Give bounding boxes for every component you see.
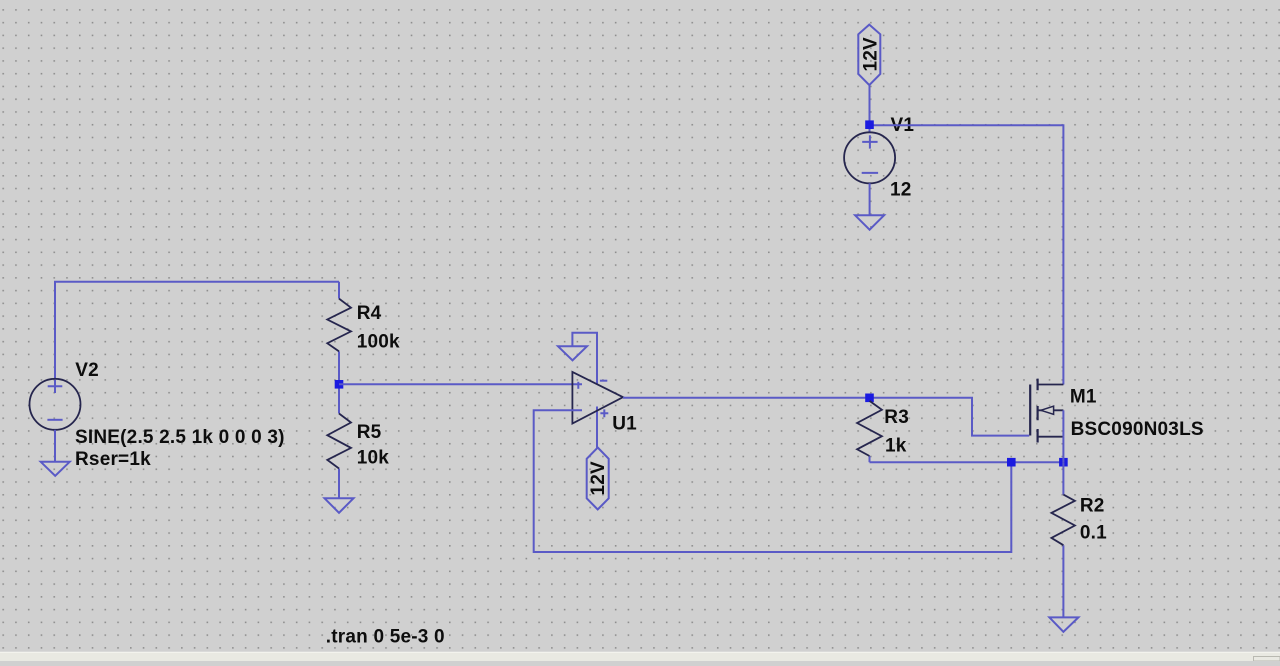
wire divider to op-amp + input bbox=[339, 383, 582, 385]
wire R3 node to M1 gate bbox=[870, 398, 1030, 436]
junction node source/R2 bbox=[1059, 458, 1068, 467]
svg-text:R2: R2 bbox=[1080, 496, 1105, 517]
svg-text:100k: 100k bbox=[357, 331, 400, 352]
svg-text:Rser=1k: Rser=1k bbox=[75, 449, 151, 470]
svg-text:BSC090N03LS: BSC090N03LS bbox=[1071, 419, 1204, 440]
wire V1 to M1 drain bbox=[870, 125, 1064, 384]
ground at V1 bbox=[855, 215, 884, 229]
svg-text:V2: V2 bbox=[75, 360, 99, 381]
svg-text:M1: M1 bbox=[1070, 387, 1097, 408]
resistor R5 10k bbox=[327, 384, 389, 498]
svg-text:U1: U1 bbox=[612, 414, 637, 435]
op-amp U1 bbox=[572, 333, 637, 448]
svg-text:12: 12 bbox=[890, 179, 912, 200]
ground at R2 bbox=[1049, 617, 1078, 631]
power flag 12V at op-amp V+ bbox=[587, 448, 610, 510]
svg-text:12V: 12V bbox=[860, 37, 881, 72]
voltage source V1 bbox=[844, 115, 914, 200]
wire V2 top to R4 bbox=[55, 282, 339, 379]
svg-text:R4: R4 bbox=[357, 303, 382, 324]
power flag 12V at V1 bbox=[858, 25, 881, 86]
wire V2 bottom to ground bbox=[54, 430, 56, 462]
svg-text:12V: 12V bbox=[588, 461, 609, 496]
svg-text:1k: 1k bbox=[885, 435, 907, 456]
junction node op-amp output / R3 bbox=[865, 394, 874, 403]
wire R3 bottom to source node bbox=[870, 461, 1064, 463]
wire feedback (op-amp inverting input loop) bbox=[534, 410, 1012, 552]
wire V1 bottom to ground bbox=[869, 183, 871, 215]
junction node R4/R5 divider bbox=[335, 380, 344, 389]
svg-text:SINE(2.5 2.5 1k 0 0 0 3): SINE(2.5 2.5 1k 0 0 0 3) bbox=[75, 427, 285, 448]
resistor R4 100k bbox=[327, 282, 400, 385]
svg-text:R3: R3 bbox=[884, 407, 909, 428]
wire M1 source to R2 bbox=[1062, 437, 1064, 463]
wire flag to V1 bbox=[869, 85, 871, 125]
status bar strip bbox=[0, 652, 1280, 661]
ground at V2 bbox=[41, 462, 70, 476]
voltage source V2 bbox=[30, 360, 285, 470]
ground at op-amp V- bbox=[558, 346, 587, 360]
junction node V1 top bbox=[865, 120, 874, 129]
svg-text:R5: R5 bbox=[357, 422, 382, 443]
svg-text:0.1: 0.1 bbox=[1080, 523, 1107, 544]
ground at R5 bbox=[325, 498, 354, 513]
svg-text:.tran 0 5e-3 0: .tran 0 5e-3 0 bbox=[326, 627, 445, 648]
spice directive .tran bbox=[326, 627, 445, 648]
resistor R2 0.1 bbox=[1051, 462, 1107, 617]
transistor M1 BSC090N03LS bbox=[1030, 379, 1204, 443]
svg-text:10k: 10k bbox=[357, 447, 390, 468]
junction node feedback tap bbox=[1007, 458, 1016, 467]
wire op-amp output to R3 bbox=[623, 397, 870, 399]
resistor R3 1k bbox=[857, 401, 909, 462]
